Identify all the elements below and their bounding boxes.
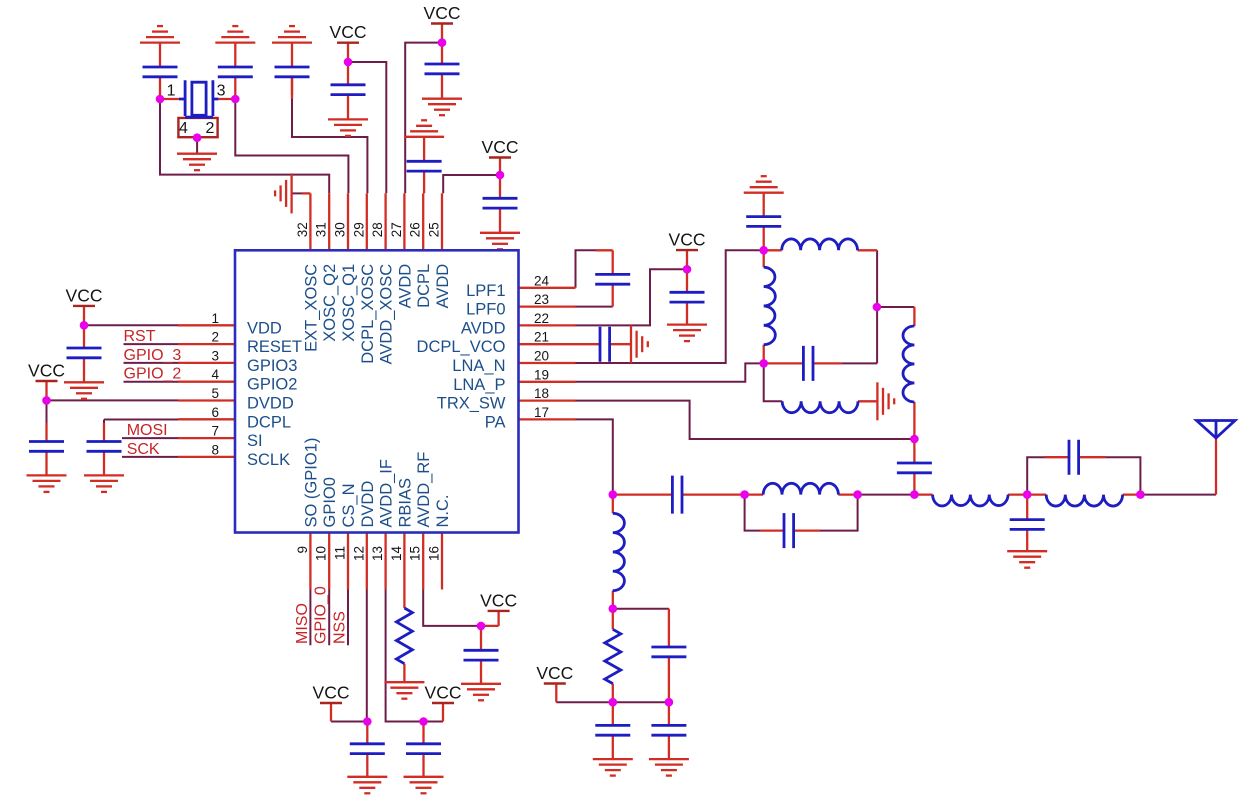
svg-text:DVDD: DVDD bbox=[247, 395, 294, 413]
svg-text:RST: RST bbox=[124, 328, 156, 345]
svg-text:18: 18 bbox=[534, 386, 549, 401]
svg-text:LPF0: LPF0 bbox=[466, 301, 505, 319]
svg-text:31: 31 bbox=[314, 222, 329, 237]
svg-text:20: 20 bbox=[534, 349, 549, 364]
svg-text:19: 19 bbox=[534, 367, 549, 382]
svg-text:14: 14 bbox=[389, 546, 404, 562]
svg-text:GPIO_0: GPIO_0 bbox=[313, 586, 330, 644]
svg-text:10: 10 bbox=[314, 546, 329, 561]
svg-text:26: 26 bbox=[408, 222, 423, 237]
svg-text:28: 28 bbox=[370, 222, 385, 237]
svg-text:VCC: VCC bbox=[482, 137, 519, 157]
svg-text:SI: SI bbox=[247, 432, 263, 450]
svg-text:CS_N: CS_N bbox=[340, 483, 358, 527]
svg-text:LPF1: LPF1 bbox=[466, 282, 505, 300]
svg-text:XOSC_Q2: XOSC_Q2 bbox=[321, 264, 339, 342]
svg-text:MISO: MISO bbox=[294, 603, 311, 644]
svg-text:VCC: VCC bbox=[425, 683, 462, 703]
svg-text:AVDD_XOSC: AVDD_XOSC bbox=[378, 264, 396, 365]
svg-text:17: 17 bbox=[534, 405, 549, 420]
svg-text:NSS: NSS bbox=[332, 611, 349, 644]
svg-text:3: 3 bbox=[211, 348, 219, 363]
svg-text:21: 21 bbox=[534, 330, 549, 345]
svg-text:24: 24 bbox=[534, 273, 550, 288]
svg-text:AVDD: AVDD bbox=[461, 319, 506, 337]
svg-text:AVDD: AVDD bbox=[396, 264, 414, 309]
svg-text:8: 8 bbox=[211, 442, 219, 457]
svg-text:4: 4 bbox=[211, 367, 219, 382]
svg-text:7: 7 bbox=[211, 424, 219, 439]
svg-text:SCLK: SCLK bbox=[247, 451, 290, 469]
svg-text:LNA_P: LNA_P bbox=[453, 376, 505, 394]
svg-text:22: 22 bbox=[534, 311, 549, 326]
svg-text:GPIO_2: GPIO_2 bbox=[124, 366, 182, 383]
svg-text:VCC: VCC bbox=[28, 361, 65, 381]
svg-text:VCC: VCC bbox=[536, 663, 573, 683]
svg-text:6: 6 bbox=[211, 405, 219, 420]
svg-text:AVDD_RF: AVDD_RF bbox=[415, 452, 433, 528]
svg-text:DCPL: DCPL bbox=[415, 264, 433, 308]
svg-text:4: 4 bbox=[179, 120, 188, 137]
svg-text:N.C.: N.C. bbox=[434, 495, 452, 528]
svg-text:GPIO3: GPIO3 bbox=[247, 357, 297, 375]
svg-text:2: 2 bbox=[211, 330, 219, 345]
svg-text:11: 11 bbox=[333, 546, 348, 560]
svg-text:DCPL_XOSC: DCPL_XOSC bbox=[359, 264, 377, 364]
svg-text:32: 32 bbox=[295, 222, 310, 237]
svg-text:DCPL: DCPL bbox=[247, 413, 291, 431]
svg-text:GPIO_3: GPIO_3 bbox=[124, 347, 182, 364]
svg-text:16: 16 bbox=[427, 546, 442, 561]
svg-text:VCC: VCC bbox=[669, 230, 706, 250]
svg-text:LNA_N: LNA_N bbox=[452, 357, 505, 375]
svg-text:SO (GPIO1): SO (GPIO1) bbox=[302, 438, 320, 528]
svg-text:13: 13 bbox=[370, 546, 385, 561]
svg-text:DVDD: DVDD bbox=[359, 481, 377, 528]
svg-text:MOSI: MOSI bbox=[127, 422, 168, 439]
svg-text:23: 23 bbox=[534, 292, 549, 307]
svg-text:EXT_XOSC: EXT_XOSC bbox=[302, 264, 320, 352]
svg-text:GPIO2: GPIO2 bbox=[247, 376, 297, 394]
svg-text:VCC: VCC bbox=[313, 683, 350, 703]
svg-text:12: 12 bbox=[351, 546, 366, 561]
svg-text:RBIAS: RBIAS bbox=[396, 478, 414, 528]
svg-text:1: 1 bbox=[211, 311, 219, 326]
svg-text:VCC: VCC bbox=[424, 3, 461, 23]
svg-text:15: 15 bbox=[408, 546, 423, 561]
svg-text:AVDD: AVDD bbox=[434, 264, 452, 309]
svg-text:9: 9 bbox=[295, 546, 310, 554]
svg-text:PA: PA bbox=[485, 413, 506, 431]
svg-text:VCC: VCC bbox=[66, 285, 103, 305]
svg-text:29: 29 bbox=[351, 222, 366, 237]
svg-text:3: 3 bbox=[217, 83, 226, 100]
svg-text:1: 1 bbox=[167, 83, 176, 100]
svg-text:RESET: RESET bbox=[247, 338, 302, 356]
svg-text:GPIO0: GPIO0 bbox=[321, 477, 339, 527]
svg-text:5: 5 bbox=[211, 386, 219, 401]
svg-text:TRX_SW: TRX_SW bbox=[437, 395, 506, 413]
svg-text:AVDD_IF: AVDD_IF bbox=[378, 459, 396, 527]
svg-text:27: 27 bbox=[389, 222, 404, 237]
svg-text:30: 30 bbox=[333, 222, 348, 237]
svg-text:DCPL_VCO: DCPL_VCO bbox=[417, 338, 506, 356]
svg-text:25: 25 bbox=[427, 222, 442, 237]
svg-text:2: 2 bbox=[206, 120, 215, 137]
svg-text:VCC: VCC bbox=[480, 590, 517, 610]
svg-text:SCK: SCK bbox=[127, 441, 160, 458]
svg-text:VCC: VCC bbox=[330, 22, 367, 42]
svg-text:XOSC_Q1: XOSC_Q1 bbox=[340, 264, 358, 342]
svg-text:VDD: VDD bbox=[247, 319, 282, 337]
